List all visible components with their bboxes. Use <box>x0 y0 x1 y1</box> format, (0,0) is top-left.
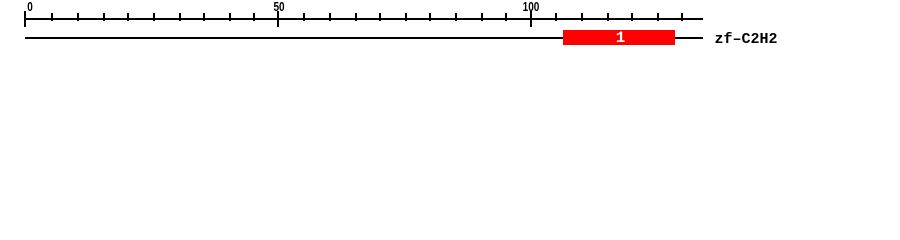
ruler scale line <box>24 18 703 20</box>
minor tick 90 <box>481 13 483 21</box>
ruler label 0 <box>14 2 46 13</box>
minor tick 65 <box>355 13 357 21</box>
motif hit number 1 <box>565 31 677 46</box>
minor tick 35 <box>203 13 205 21</box>
minor tick 105 <box>555 13 557 21</box>
minor tick 15 <box>103 13 105 21</box>
minor tick 80 <box>429 13 431 21</box>
minor tick 85 <box>455 13 457 21</box>
minor tick 130 <box>681 13 683 21</box>
minor tick 120 <box>631 13 633 21</box>
major tick 50 <box>277 11 279 27</box>
minor tick 125 <box>657 13 659 21</box>
ruler label 50 <box>263 2 295 13</box>
minor tick 40 <box>229 13 231 21</box>
minor tick 45 <box>253 13 255 21</box>
minor tick 70 <box>379 13 381 21</box>
minor tick 30 <box>179 13 181 21</box>
minor tick 95 <box>505 13 507 21</box>
sequence line <box>25 37 703 39</box>
minor tick 5 <box>51 13 53 21</box>
major tick 0 <box>24 11 26 27</box>
minor tick 25 <box>153 13 155 21</box>
motif hit box 1 (zf-C2H2) <box>563 30 675 45</box>
minor tick 55 <box>303 13 305 21</box>
major tick 100 <box>530 11 532 27</box>
minor tick 20 <box>127 13 129 21</box>
minor tick 75 <box>405 13 407 21</box>
minor tick 115 <box>607 13 609 21</box>
minor tick 10 <box>77 13 79 21</box>
motif name label zf-C2H2 <box>715 32 778 47</box>
minor tick 110 <box>581 13 583 21</box>
minor tick 60 <box>329 13 331 21</box>
ruler label 100 <box>515 2 547 13</box>
